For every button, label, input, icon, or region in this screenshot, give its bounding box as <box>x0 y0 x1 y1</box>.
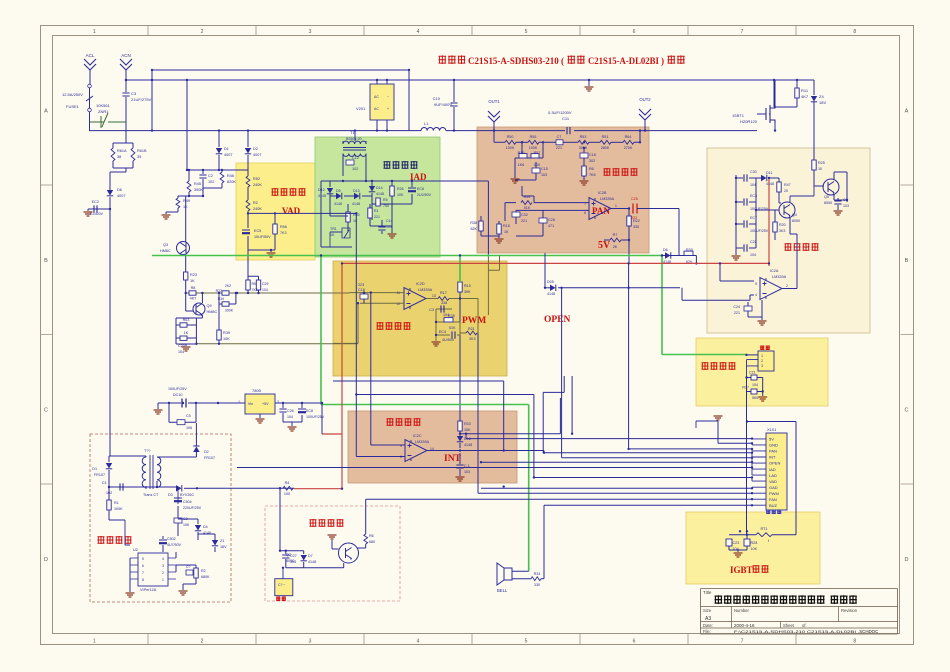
svg-text:100: 100 <box>534 163 540 167</box>
svg-text:221: 221 <box>556 146 562 150</box>
svg-text:EC4: EC4 <box>439 330 446 334</box>
svg-text:390K: 390K <box>194 188 203 192</box>
svg-text:PAN: PAN <box>769 449 777 454</box>
svg-text:ACL: ACL <box>86 53 95 58</box>
svg-text:3: 3 <box>309 29 312 35</box>
svg-text:R45: R45 <box>194 182 201 186</box>
svg-text:39K: 39K <box>464 290 471 294</box>
svg-text:Size: Size <box>703 608 712 613</box>
svg-text:750: 750 <box>383 204 389 208</box>
svg-text:FR107: FR107 <box>204 456 215 460</box>
svg-text:10: 10 <box>396 302 400 306</box>
svg-text:0.3UF/1200V: 0.3UF/1200V <box>548 110 572 115</box>
svg-text:38: 38 <box>117 155 121 159</box>
svg-text:100K: 100K <box>529 146 538 150</box>
svg-text:B: B <box>905 258 909 264</box>
svg-text:104: 104 <box>178 350 184 354</box>
svg-text:L1: L1 <box>424 121 429 126</box>
svg-text:C5: C5 <box>186 414 191 418</box>
svg-text:R34: R34 <box>218 297 224 301</box>
svg-text:C28: C28 <box>548 218 555 222</box>
svg-text:R61B: R61B <box>137 149 147 153</box>
svg-text:D6: D6 <box>117 188 122 192</box>
svg-text:C6: C6 <box>843 198 848 202</box>
svg-text:C11: C11 <box>562 116 570 121</box>
svg-text:C15: C15 <box>541 167 548 171</box>
svg-text:C12: C12 <box>352 156 359 160</box>
svg-text:20: 20 <box>784 189 788 193</box>
svg-text:DC10: DC10 <box>173 393 182 397</box>
svg-text:R27: R27 <box>216 289 222 293</box>
svg-text:R5: R5 <box>383 198 388 202</box>
svg-text:R11: R11 <box>801 88 809 93</box>
svg-text:D5: D5 <box>336 189 341 193</box>
svg-text:221: 221 <box>374 215 380 219</box>
svg-text:R6: R6 <box>369 534 374 538</box>
svg-text:4007: 4007 <box>253 153 261 157</box>
svg-text:103: 103 <box>541 173 547 177</box>
svg-text:Date:: Date: <box>703 623 713 628</box>
svg-text:2: 2 <box>201 639 204 645</box>
svg-text:51K: 51K <box>524 206 531 210</box>
svg-text:IC2A: IC2A <box>770 269 779 273</box>
svg-text:240K: 240K <box>253 207 262 211</box>
svg-text:100UF/25V: 100UF/25V <box>750 229 769 233</box>
svg-text:12.5A/250V: 12.5A/250V <box>62 92 83 97</box>
svg-text:R8: R8 <box>191 286 196 290</box>
svg-text:51K: 51K <box>449 326 456 330</box>
svg-text:C29: C29 <box>262 282 268 286</box>
svg-text:3K3: 3K3 <box>779 229 785 233</box>
svg-text:HM6C: HM6C <box>160 249 171 253</box>
svg-text:9UF/400V: 9UF/400V <box>434 102 452 107</box>
svg-text:R20: R20 <box>779 223 786 227</box>
svg-text:R33: R33 <box>464 422 471 426</box>
svg-text:C2: C2 <box>208 174 213 178</box>
svg-text:BUZ: BUZ <box>769 503 778 508</box>
svg-text:C23: C23 <box>733 541 740 545</box>
svg-text:4K7: 4K7 <box>801 94 809 99</box>
svg-text:4: 4 <box>755 293 757 297</box>
svg-text:C32: C32 <box>521 213 528 217</box>
svg-text:9: 9 <box>400 444 402 448</box>
svg-text:C10: C10 <box>433 96 441 101</box>
svg-text:4148: 4148 <box>766 182 774 186</box>
svg-text:10K: 10K <box>397 193 404 197</box>
svg-text:6: 6 <box>633 639 636 645</box>
svg-text:IAD: IAD <box>769 467 776 472</box>
svg-text:4U/50V: 4U/50V <box>442 338 455 342</box>
svg-text:2: 2 <box>201 29 204 35</box>
svg-text:21UF/275V: 21UF/275V <box>131 97 152 102</box>
svg-text:R30: R30 <box>686 248 693 252</box>
svg-text:4148: 4148 <box>334 202 342 206</box>
svg-text:104: 104 <box>262 288 268 292</box>
svg-text:C502: C502 <box>167 537 176 541</box>
svg-text:LAD: LAD <box>769 473 777 478</box>
svg-text:2: 2 <box>786 284 788 288</box>
svg-text:R10: R10 <box>464 284 471 288</box>
svg-text:FUSE1: FUSE1 <box>66 104 80 109</box>
svg-text:7: 7 <box>142 571 144 575</box>
svg-text:ACN: ACN <box>121 53 131 58</box>
svg-text:R61A: R61A <box>117 149 127 153</box>
svg-text:EC6: EC6 <box>417 187 424 191</box>
svg-text:R19: R19 <box>518 151 525 155</box>
svg-text:IC2C: IC2C <box>413 434 422 438</box>
svg-text:300K: 300K <box>225 309 234 313</box>
svg-text:R23: R23 <box>190 273 197 277</box>
svg-text:104: 104 <box>750 253 756 257</box>
svg-text:1: 1 <box>93 29 96 35</box>
svg-text:1K: 1K <box>504 230 509 234</box>
svg-text:103: 103 <box>464 470 470 474</box>
svg-text:C1: C1 <box>102 481 107 485</box>
svg-text:Vin: Vin <box>248 402 253 406</box>
svg-text:8: 8 <box>142 578 144 582</box>
svg-text:+5V: +5V <box>262 402 269 406</box>
svg-text:1K: 1K <box>184 331 189 335</box>
svg-text:106: 106 <box>186 426 192 430</box>
svg-text:D2: D2 <box>253 147 258 151</box>
svg-text:IC2D: IC2D <box>416 282 425 286</box>
svg-text:7K8: 7K8 <box>589 173 596 177</box>
svg-text:2K: 2K <box>613 245 618 249</box>
svg-text:GAD: GAD <box>769 485 778 490</box>
svg-text:A3: A3 <box>705 616 711 622</box>
svg-text:104: 104 <box>750 183 756 187</box>
svg-text:EC2: EC2 <box>92 200 99 204</box>
svg-text:B: B <box>44 258 48 264</box>
svg-text:R2: R2 <box>253 201 258 205</box>
svg-text:39: 39 <box>137 155 141 159</box>
svg-text:C24: C24 <box>733 305 740 309</box>
svg-text:R56: R56 <box>280 225 287 229</box>
svg-text:5: 5 <box>525 29 528 35</box>
svg-text:OPEN: OPEN <box>769 461 780 466</box>
svg-text:5K6: 5K6 <box>752 396 758 400</box>
svg-text:2K2: 2K2 <box>225 284 231 288</box>
svg-text:1K: 1K <box>330 233 335 237</box>
svg-text:Revision: Revision <box>841 608 858 613</box>
svg-text:R55: R55 <box>530 135 537 139</box>
svg-text:4U7/50V: 4U7/50V <box>167 543 182 547</box>
svg-text:H20R120: H20R120 <box>740 119 758 124</box>
svg-text:R6: R6 <box>589 167 594 171</box>
svg-text:100K: 100K <box>114 507 123 511</box>
svg-text:10UF/50V: 10UF/50V <box>254 235 271 239</box>
svg-text:TR1: TR1 <box>330 227 337 231</box>
svg-text:7805: 7805 <box>252 388 262 393</box>
svg-text:3: 3 <box>309 639 312 645</box>
svg-text:100UF/25V: 100UF/25V <box>168 387 187 391</box>
svg-text:D4: D4 <box>203 525 208 529</box>
svg-text:280K: 280K <box>601 146 610 150</box>
svg-text:1: 1 <box>162 578 164 582</box>
svg-text:C25: C25 <box>631 197 638 201</box>
svg-text:7K3: 7K3 <box>280 231 287 235</box>
svg-text:R35: R35 <box>448 314 455 318</box>
svg-text:104: 104 <box>290 560 296 564</box>
svg-text:R26: R26 <box>397 187 404 191</box>
svg-text:A: A <box>44 108 48 114</box>
svg-text:5V: 5V <box>598 240 611 251</box>
svg-text:R57: R57 <box>534 151 541 155</box>
svg-text:223: 223 <box>358 283 364 287</box>
svg-text:6: 6 <box>584 211 586 215</box>
svg-text:R54: R54 <box>524 195 531 199</box>
svg-text:2000-4-16: 2000-4-16 <box>734 623 755 628</box>
svg-text:EC5: EC5 <box>254 229 261 233</box>
svg-text:.SCHDOC: .SCHDOC <box>858 629 878 634</box>
svg-text:EC8: EC8 <box>306 409 313 413</box>
svg-text:2: 2 <box>761 359 763 363</box>
svg-text:4007: 4007 <box>224 153 232 157</box>
svg-text:PWM: PWM <box>769 491 779 496</box>
svg-text:Z4: Z4 <box>819 94 824 99</box>
svg-text:270K: 270K <box>624 146 633 150</box>
svg-text:D05: D05 <box>547 280 554 284</box>
svg-text:R17: R17 <box>440 291 447 295</box>
svg-text:Trans CT: Trans CT <box>143 493 159 497</box>
svg-text:D3: D3 <box>168 493 173 497</box>
svg-text:VIPer12A: VIPer12A <box>140 588 157 592</box>
svg-text:100UF/25V: 100UF/25V <box>306 415 325 419</box>
svg-text:R63: R63 <box>183 318 190 322</box>
svg-text:C? −: C? − <box>278 583 285 587</box>
svg-text:ZNR1: ZNR1 <box>98 109 109 114</box>
svg-text:680K: 680K <box>201 575 210 579</box>
svg-text:4148: 4148 <box>318 194 326 198</box>
svg-text:C3: C3 <box>131 91 137 96</box>
svg-text:V201: V201 <box>356 106 366 111</box>
svg-text:R4: R4 <box>285 481 290 485</box>
svg-text:BYV26C: BYV26C <box>180 493 194 497</box>
svg-text:C18: C18 <box>589 153 596 157</box>
svg-text:D11: D11 <box>766 171 772 175</box>
svg-text:8: 8 <box>400 455 402 459</box>
svg-text:10: 10 <box>818 167 822 171</box>
svg-text:1K: 1K <box>190 279 195 283</box>
svg-text:13: 13 <box>432 294 436 298</box>
svg-text:D14: D14 <box>376 186 383 190</box>
svg-text:R64: R64 <box>625 135 632 139</box>
svg-text:R25: R25 <box>818 161 825 165</box>
svg-text:FAN: FAN <box>769 497 777 502</box>
svg-text:18V: 18V <box>220 545 227 549</box>
svg-text:R22: R22 <box>633 219 640 223</box>
svg-text:221: 221 <box>521 219 527 223</box>
svg-text:D: D <box>905 557 909 563</box>
svg-text:T1: T1 <box>350 130 355 135</box>
svg-text:R21: R21 <box>468 327 475 331</box>
svg-text:R50: R50 <box>507 135 514 139</box>
svg-text:302: 302 <box>589 159 595 163</box>
svg-text:10K: 10K <box>751 547 758 551</box>
svg-text:LM339A: LM339A <box>600 197 615 201</box>
svg-text:Q5: Q5 <box>824 195 829 199</box>
svg-text:R46: R46 <box>227 174 234 178</box>
svg-text:4: 4 <box>417 639 420 645</box>
svg-text:R2: R2 <box>201 569 206 573</box>
svg-text:C18: C18 <box>358 288 365 292</box>
svg-text:R53: R53 <box>580 135 587 139</box>
svg-text:6: 6 <box>633 29 636 35</box>
svg-text:R5: R5 <box>252 282 257 286</box>
svg-text:File:: File: <box>703 629 711 634</box>
svg-text:680: 680 <box>369 540 375 544</box>
svg-text:2: 2 <box>162 571 164 575</box>
svg-text:C504: C504 <box>183 500 192 504</box>
svg-text:5: 5 <box>755 282 757 286</box>
svg-text:820K: 820K <box>227 180 236 184</box>
svg-text:8: 8 <box>853 29 856 35</box>
svg-text:C7: C7 <box>557 135 562 139</box>
svg-text:4148: 4148 <box>352 202 360 206</box>
svg-text:R38: R38 <box>470 221 477 225</box>
svg-text:104: 104 <box>287 415 293 419</box>
svg-text:U2: U2 <box>133 548 138 552</box>
svg-text:15K: 15K <box>464 428 471 432</box>
svg-text:R34: R34 <box>534 572 541 576</box>
svg-text:VAD: VAD <box>282 206 301 216</box>
svg-text:1: 1 <box>761 354 763 358</box>
svg-text:5: 5 <box>142 557 144 561</box>
svg-text:T??: T?? <box>144 449 151 453</box>
svg-text:R47: R47 <box>784 183 791 187</box>
svg-text:10K561: 10K561 <box>96 103 111 108</box>
svg-text:FR107: FR107 <box>94 473 105 477</box>
svg-text:C26: C26 <box>287 409 294 413</box>
svg-text:3K3: 3K3 <box>469 337 476 341</box>
svg-text:−: − <box>387 95 389 99</box>
svg-text:R18: R18 <box>503 224 510 228</box>
svg-text:3: 3 <box>162 564 164 568</box>
svg-text:D12: D12 <box>318 188 325 192</box>
svg-text:A: A <box>905 108 909 114</box>
svg-text:D6: D6 <box>663 248 668 252</box>
svg-text:1K6: 1K6 <box>518 163 525 167</box>
svg-text:PWM: PWM <box>462 316 486 326</box>
svg-text:102: 102 <box>352 167 358 171</box>
svg-text:3: 3 <box>761 364 763 368</box>
svg-text:R51: R51 <box>602 135 609 139</box>
svg-text:B2505-00: B2505-00 <box>346 137 362 141</box>
svg-text:4: 4 <box>417 29 420 35</box>
svg-text:LM339A: LM339A <box>772 275 787 279</box>
svg-text:C27: C27 <box>290 554 297 558</box>
svg-text:C3: C3 <box>429 308 434 312</box>
svg-text:R52: R52 <box>253 177 260 181</box>
svg-text:4148: 4148 <box>308 560 316 564</box>
svg-text:R1: R1 <box>114 501 119 505</box>
svg-text:X101: X101 <box>767 427 777 432</box>
svg-text:VAD: VAD <box>769 479 777 484</box>
svg-text:C?: C? <box>186 565 190 569</box>
svg-text:R28: R28 <box>751 541 758 545</box>
svg-text:18V: 18V <box>819 100 826 105</box>
svg-text:2U2/50V: 2U2/50V <box>417 193 432 197</box>
svg-text:330: 330 <box>534 583 540 587</box>
svg-text:HM8C: HM8C <box>207 310 218 314</box>
svg-text:Q9: Q9 <box>207 304 212 308</box>
svg-text:100: 100 <box>284 492 290 496</box>
svg-text:10K: 10K <box>223 337 230 341</box>
svg-text:R37: R37 <box>742 386 749 390</box>
svg-text:5V: 5V <box>769 437 774 442</box>
svg-text:Number: Number <box>734 608 749 613</box>
svg-text:4148: 4148 <box>464 443 472 447</box>
svg-text:330: 330 <box>633 225 639 229</box>
svg-text:AC: AC <box>374 95 379 99</box>
svg-text:OUT2: OUT2 <box>639 97 651 102</box>
svg-text:R49: R49 <box>183 199 190 203</box>
svg-text:C21S15-A-SDHS03-210 (: C21S15-A-SDHS03-210 ( <box>468 56 564 66</box>
svg-text:IC2B: IC2B <box>598 191 607 195</box>
svg-text:Q3: Q3 <box>163 243 168 247</box>
svg-text:GND: GND <box>769 443 778 448</box>
svg-text:R39: R39 <box>223 331 230 335</box>
svg-text:220UF/25V: 220UF/25V <box>183 506 202 510</box>
svg-text:4007: 4007 <box>117 194 125 198</box>
svg-text:D7: D7 <box>308 554 313 558</box>
svg-text:OPEN: OPEN <box>544 315 571 325</box>
svg-text:5: 5 <box>525 639 528 645</box>
svg-text:BELL: BELL <box>497 588 508 593</box>
svg-text:106: 106 <box>183 523 189 527</box>
svg-text:LM339A: LM339A <box>418 288 433 292</box>
svg-text:C21: C21 <box>749 371 756 375</box>
svg-text:RT1: RT1 <box>760 527 767 531</box>
svg-text:8550: 8550 <box>824 201 832 205</box>
svg-text:471: 471 <box>548 224 554 228</box>
svg-text:221: 221 <box>734 311 740 315</box>
svg-text:R1: R1 <box>374 209 379 213</box>
svg-text:4: 4 <box>162 557 164 561</box>
svg-text:AC: AC <box>374 107 379 111</box>
svg-text:Z1: Z1 <box>220 539 224 543</box>
svg-text:D2: D2 <box>204 450 209 454</box>
svg-text:C30: C30 <box>750 170 757 174</box>
svg-text:1: 1 <box>238 400 240 404</box>
svg-text:D1: D1 <box>92 467 97 471</box>
svg-text:104: 104 <box>752 383 758 387</box>
svg-text:7: 7 <box>741 639 744 645</box>
svg-text:6: 6 <box>142 564 144 568</box>
svg-text:Q4: Q4 <box>792 213 797 217</box>
svg-text:103: 103 <box>843 204 849 208</box>
svg-text:C: C <box>905 407 909 413</box>
svg-text:8: 8 <box>853 639 856 645</box>
svg-text:IGBT1: IGBT1 <box>732 113 744 118</box>
svg-text:C21S15-A-DL02BI ): C21S15-A-DL02BI ) <box>588 56 664 66</box>
svg-text:4K7: 4K7 <box>190 297 197 301</box>
svg-text:LM339A: LM339A <box>415 440 430 444</box>
svg-text:240K: 240K <box>253 183 262 187</box>
svg-text:7K5: 7K5 <box>252 288 258 292</box>
svg-text:INT: INT <box>769 455 776 460</box>
svg-text:1: 1 <box>93 639 96 645</box>
svg-text:Title: Title <box>703 590 712 595</box>
svg-text:C: C <box>44 407 48 413</box>
svg-text:4148: 4148 <box>376 192 384 196</box>
svg-text:8050: 8050 <box>792 219 800 223</box>
svg-text:+: + <box>387 107 389 111</box>
svg-text:1K: 1K <box>353 219 358 223</box>
svg-text:F:\C21S15-A-SDHS03-210 C21S15-: F:\C21S15-A-SDHS03-210 C21S15-A-DL02BI <box>734 629 856 634</box>
svg-text:D13: D13 <box>353 189 360 193</box>
svg-text:100K: 100K <box>506 146 515 150</box>
